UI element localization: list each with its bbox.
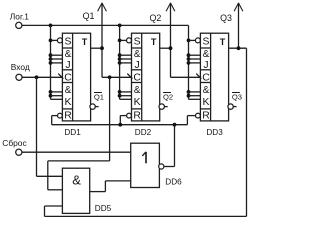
junction DD3 J tap xyxy=(187,61,191,65)
wire DD2 R input xyxy=(120,116,126,125)
terminal Sbros circle xyxy=(16,149,22,155)
svg-text:R: R xyxy=(64,111,72,122)
junction DD1 J tap xyxy=(49,53,53,57)
junction R line to DD6 output xyxy=(173,123,177,127)
flip-flop DD1 pin labels xyxy=(64,36,88,121)
junction DD1 K tap xyxy=(49,94,53,98)
junction DD3 K tap xyxy=(187,90,191,94)
svg-text:K: K xyxy=(134,97,141,108)
svg-text:DD6: DD6 xyxy=(165,177,182,186)
flip-flop DD1 J input wires xyxy=(51,55,63,63)
label DD5 xyxy=(95,204,112,213)
flip-flop DD1 inverse output circle and stub xyxy=(90,104,99,109)
terminal Log.1 circle xyxy=(16,22,22,28)
flip-flop DD1 body outline xyxy=(62,33,90,121)
junction rail to DD2 bus xyxy=(118,24,122,28)
junction DD3 K tap xyxy=(187,94,191,98)
svg-text:&: & xyxy=(134,85,141,96)
flip-flop DD3 K input wires xyxy=(189,92,201,99)
terminal Sbros label xyxy=(2,138,26,148)
svg-text:J: J xyxy=(203,60,208,71)
wire DD1 R input xyxy=(52,116,58,125)
wire Q3 output of DD3 to right feedback xyxy=(229,47,247,49)
wire DD5 output to DD6 input 2 xyxy=(90,181,131,192)
logic gate DD5 AND body xyxy=(62,168,89,213)
svg-text:S: S xyxy=(65,36,72,47)
flip-flop DD3 R inverting circle xyxy=(196,113,201,118)
flip-flop DD2 S input wire xyxy=(120,39,127,41)
flip-flop DD2 dynamic C input slash xyxy=(127,74,132,79)
svg-text:Q1: Q1 xyxy=(83,11,95,21)
junction rail to DD1 bus xyxy=(49,24,53,28)
junction Q1 output xyxy=(100,46,104,50)
svg-text:Q2: Q2 xyxy=(149,13,161,23)
label Q1 xyxy=(83,11,95,21)
flip-flop DD1 R inverting circle xyxy=(58,113,63,118)
wire Q1 drop to DD5 input 2 xyxy=(48,77,110,190)
svg-text:&: & xyxy=(203,85,210,96)
svg-text:DD2: DD2 xyxy=(135,128,152,137)
label Q3 xyxy=(220,13,232,23)
flip-flop DD3 dynamic C input slash xyxy=(196,74,201,79)
svg-text:Вход: Вход xyxy=(11,62,30,72)
wire Q3 feedback to DD5 input 3 xyxy=(45,48,247,216)
junction Q1 drop to DD5 input 2 xyxy=(108,75,112,79)
flip-flop DD2 R inverting circle xyxy=(127,113,132,118)
svg-text:T: T xyxy=(82,37,88,47)
junction R line to DD2 xyxy=(118,123,122,127)
junction DD2 J tap xyxy=(118,57,122,61)
wire DD6 output to R line xyxy=(164,125,175,167)
svg-text:Сброс: Сброс xyxy=(2,138,26,148)
node Q3 bus: arrow up xyxy=(234,3,243,48)
junction Vhod drop to DD5 xyxy=(35,75,39,79)
junction DD1 J tap xyxy=(49,57,53,61)
flip-flop DD1 S inverting circle xyxy=(57,38,62,43)
vertical input bus of DD3 xyxy=(188,25,190,99)
label DD2 xyxy=(135,128,152,137)
node Q1 bus: arrow up, down to C of DD2 xyxy=(98,3,132,78)
svg-text:J: J xyxy=(134,60,139,71)
node Q2 bus: arrow up, down to C of DD3 xyxy=(166,3,200,78)
svg-text:Q3: Q3 xyxy=(220,13,232,23)
svg-text:DD3: DD3 xyxy=(206,128,223,137)
terminal Vhod label xyxy=(11,62,30,72)
junction DD3 J tap xyxy=(187,53,191,57)
svg-text:R: R xyxy=(133,111,141,122)
svg-text:K: K xyxy=(65,97,72,108)
label DD3 xyxy=(206,128,223,137)
junction Q3 output xyxy=(237,46,241,50)
wire Q1 output of DD1 xyxy=(91,47,102,49)
svg-text:J: J xyxy=(65,60,70,71)
flip-flop DD3 pin labels xyxy=(202,36,226,121)
flip-flop DD3 inverse output circle and stub xyxy=(228,104,237,109)
flip-flop DD3 body outline xyxy=(200,33,228,121)
svg-text:C: C xyxy=(64,72,72,83)
junction DD1 J tap xyxy=(49,61,53,65)
label inverse Q2 output xyxy=(163,92,173,101)
label DD6 xyxy=(165,177,182,186)
logic gate DD6 body xyxy=(131,143,160,187)
svg-text:&: & xyxy=(72,172,81,187)
svg-text:Лог.1: Лог.1 xyxy=(10,11,30,21)
flip-flop DD2 K input wires xyxy=(120,92,132,99)
svg-text:Q1: Q1 xyxy=(94,92,104,101)
wire Vhod drop to DD5 input 1 xyxy=(37,77,63,176)
junction DD1 S tap xyxy=(49,39,53,43)
label Q2 xyxy=(149,13,161,23)
svg-text:&: & xyxy=(65,85,72,96)
logic gate DD6 output inverting circle xyxy=(159,164,164,169)
svg-text:C: C xyxy=(202,72,210,83)
wire DD3 R input xyxy=(187,116,195,125)
svg-text:&: & xyxy=(134,49,141,60)
vertical input bus of DD2 xyxy=(119,25,121,99)
label inverse Q3 output xyxy=(232,92,242,101)
flip-flop DD2 pin labels xyxy=(133,36,157,121)
svg-text:&: & xyxy=(65,49,72,60)
svg-text:T: T xyxy=(220,37,226,47)
wire Sbros to DD6 input 1 xyxy=(22,151,131,153)
svg-text:DD1: DD1 xyxy=(64,128,81,137)
junction DD3 S tap xyxy=(187,39,191,43)
junction DD1 K tap xyxy=(49,90,53,94)
svg-text:K: K xyxy=(203,97,210,108)
terminal Vhod circle xyxy=(16,74,22,80)
flip-flop DD2 inverse output circle and stub xyxy=(159,104,168,109)
svg-text:S: S xyxy=(134,36,141,47)
flip-flop DD3 J input wires xyxy=(189,55,201,63)
flip-flop DD2 J input wires xyxy=(120,55,132,63)
svg-text:Q2: Q2 xyxy=(163,92,173,101)
svg-text:R: R xyxy=(202,111,210,122)
svg-text:DD5: DD5 xyxy=(95,204,112,213)
junction DD2 S tap xyxy=(118,39,122,43)
wire Vhod to C of DD1 xyxy=(22,76,62,78)
flip-flop DD2 body outline xyxy=(132,33,160,121)
junction DD2 J tap xyxy=(118,61,122,65)
vertical input bus of DD1 xyxy=(50,25,52,99)
terminal Log.1 label xyxy=(10,11,30,21)
junction DD2 K tap xyxy=(118,94,122,98)
junction DD3 J tap xyxy=(187,57,191,61)
svg-text:T: T xyxy=(151,37,157,47)
junction DD2 K tap xyxy=(118,90,122,94)
flip-flop DD3 S input wire xyxy=(189,39,196,41)
svg-text:C: C xyxy=(133,72,141,83)
wire Log.1 rail xyxy=(22,24,189,26)
wire common R line xyxy=(52,124,188,126)
svg-text:S: S xyxy=(203,36,210,47)
flip-flop DD3 S inverting circle xyxy=(195,38,200,43)
junction DD2 J tap xyxy=(118,53,122,57)
svg-text:Q3: Q3 xyxy=(232,92,242,101)
flip-flop DD1 S input wire xyxy=(51,39,58,41)
wire Q2 output of DD2 xyxy=(160,47,171,49)
svg-text:&: & xyxy=(203,49,210,60)
flip-flop DD2 S inverting circle xyxy=(127,38,132,43)
flip-flop DD1 K input wires xyxy=(51,92,63,99)
label inverse Q1 output xyxy=(94,92,104,101)
junction Q2 output xyxy=(169,46,173,50)
label DD1 xyxy=(64,128,81,137)
flip-flop DD1 dynamic C input slash xyxy=(58,74,63,79)
